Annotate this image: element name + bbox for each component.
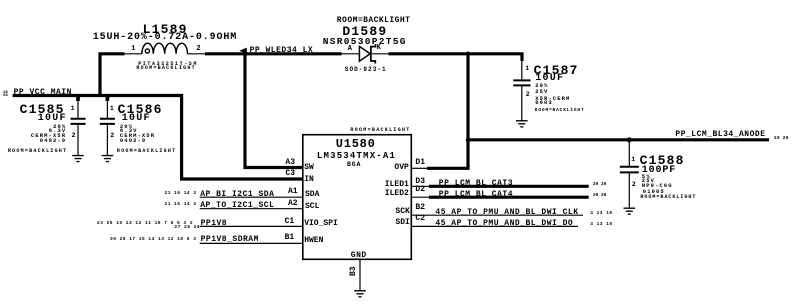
- C1587 room property: [535, 109, 585, 114]
- pin number C3: [285, 170, 295, 178]
- wire VIO_SPI pin C1: [200, 225, 303, 227]
- U1580 pin name IN: [304, 176, 314, 184]
- junction dot anode riser: [466, 138, 470, 142]
- junction square C1586 on bus: [106, 94, 110, 101]
- inductor L1589 value: [93, 33, 237, 43]
- pin number C1: [285, 218, 295, 226]
- off-page ref marks PP_VCC_MAIN: [3, 91, 8, 95]
- wire SCK B2: [411, 214, 583, 216]
- C1588 pin 2: [632, 182, 636, 189]
- wire SDI C2: [411, 225, 578, 227]
- U1580 part number: [317, 152, 396, 161]
- C1587 voltage: [535, 89, 548, 95]
- C1588 value 100PF: [642, 166, 676, 176]
- page refs PP1V8_SDRAM: [110, 238, 196, 243]
- C1585 dielectric: [31, 133, 66, 139]
- net 45_AP_TO_PMU_AND_BL_DWI_CLK: [435, 209, 578, 217]
- pin number B1: [285, 234, 295, 242]
- net arrow PP_WLED34_LX: [239, 48, 247, 54]
- C1585 value 10UF: [38, 114, 67, 124]
- wire SCL pin A2: [200, 208, 303, 210]
- capacitor C1585 plates: [71, 119, 86, 124]
- capacitor C1588 refdes: [640, 154, 685, 167]
- wire thin OVP pin stub D1: [411, 167, 427, 169]
- C1588 tolerance: [642, 174, 651, 180]
- C1585 tolerance: [53, 124, 66, 130]
- capacitor C1587 refdes: [534, 64, 579, 77]
- C1585 pin 1: [71, 106, 75, 113]
- wire GND pin B3: [359, 259, 361, 291]
- junction dot at OVP riser: [466, 52, 471, 57]
- inductor L1589 coil: [142, 43, 188, 54]
- pin number C2: [415, 215, 425, 223]
- C1587 pin 1: [525, 66, 529, 73]
- U1580 package BGA: [347, 162, 361, 169]
- C1586 pin 2: [110, 133, 114, 140]
- C1587 package: [535, 100, 553, 106]
- capacitor C1587 plates: [513, 80, 530, 85]
- L1589 pin 1: [131, 46, 135, 53]
- U1580 pin name OVP: [394, 164, 408, 172]
- wire thick PP_LCM_BL_CAT3: [429, 185, 589, 188]
- capacitor C1585 refdes: [20, 103, 65, 116]
- C1587 dielectric: [535, 96, 570, 102]
- L1589 part number: [138, 62, 198, 67]
- op-amp U1580 refdes: [336, 138, 376, 150]
- D1589 room property: [337, 17, 411, 25]
- pin number D1: [415, 159, 425, 167]
- capacitor C1586 plates: [100, 119, 115, 124]
- C1588 voltage: [642, 178, 655, 184]
- ground under C1585: [72, 156, 84, 162]
- C1587 value 10UF: [535, 74, 564, 84]
- diode D1589 part number: [323, 37, 407, 47]
- capacitor C1586 refdes: [118, 103, 163, 116]
- page refs ANODE: [774, 137, 789, 142]
- ground under U1580: [354, 291, 366, 297]
- net AP_BI_I2C1_SDA: [200, 191, 274, 199]
- U1580 pin name SCL: [305, 203, 319, 211]
- net AP_TO_I2C1_SCL: [200, 202, 274, 210]
- U1580 pin name SW: [304, 164, 314, 172]
- junction square C1585 on bus: [76, 94, 80, 101]
- wire thin L1589 pin 1: [125, 53, 142, 55]
- L1589 room property: [136, 66, 196, 71]
- wire SW from LX tap down to U1580 pin A3: [245, 54, 303, 168]
- page refs CAT4: [593, 194, 607, 199]
- C1586 dielectric: [120, 133, 155, 139]
- capacitor C1586 leads: [106, 97, 108, 155]
- pin number D2: [415, 186, 425, 194]
- inductor L1589 polarity dot: [145, 49, 149, 53]
- wire thin diode anode: [342, 53, 359, 55]
- pin number B2: [415, 204, 425, 212]
- D1589 package: [345, 67, 387, 73]
- C1588 package: [643, 189, 665, 195]
- C1586 package: [120, 138, 146, 144]
- wire vertical OVP riser: [466, 52, 469, 168]
- C1587 pin 2: [526, 92, 530, 99]
- net PP_WLED34_LX: [250, 47, 314, 55]
- U1580 pin name GND: [351, 252, 367, 260]
- pin number D3: [415, 178, 425, 186]
- capacitor C1585 leads: [77, 97, 79, 155]
- junction dot C1588 tap: [627, 137, 632, 142]
- wire thin diode cathode: [372, 53, 389, 55]
- wire SDA pin A1: [200, 196, 303, 198]
- net 45_AP_TO_PMU_AND_BL_DWI_DO: [435, 220, 573, 228]
- wire thick PP_LCM_BL_CAT4: [429, 196, 589, 199]
- C1588 room property: [640, 195, 696, 200]
- C1586 tolerance: [120, 124, 133, 130]
- net PP_LCM_BL_CAT4: [439, 191, 513, 199]
- wire thick OVP horizontal: [427, 167, 470, 170]
- ground under C1586: [102, 156, 114, 162]
- page refs CAT3: [593, 183, 607, 188]
- C1586 room property: [117, 149, 177, 154]
- capacitor C1588 plates: [620, 167, 639, 173]
- net PP_VCC_MAIN: [14, 89, 72, 97]
- U1580 pin name SCK: [395, 208, 409, 216]
- inductor L1589 refdes: [143, 23, 188, 36]
- wire thick PP_WLED34_LX: [205, 52, 342, 55]
- C1585 pin 2: [72, 133, 76, 140]
- C1586 voltage: [120, 128, 138, 134]
- junction dot at SW tap: [243, 52, 248, 57]
- wire thick from diode K to C1587 corner: [389, 54, 523, 61]
- IC U1580 body: [303, 135, 412, 260]
- C1587 tolerance: [535, 83, 548, 89]
- C1588 dielectric: [642, 183, 673, 189]
- pin number A2: [288, 200, 298, 208]
- U1580 pin name SDI: [395, 219, 409, 227]
- wire bus corner to U1580 IN pin C3: [180, 94, 303, 179]
- U1580 room property: [350, 128, 410, 133]
- wire thin ILED2 stub D2: [411, 196, 429, 198]
- capacitor C1588 leads: [628, 140, 630, 208]
- net PP_LCM_BL_CAT3: [439, 180, 513, 188]
- wire HWEN pin B1: [200, 242, 303, 244]
- wire thin ILED1 stub D3: [411, 185, 429, 187]
- page refs PP1V8 row1: [97, 222, 193, 227]
- page refs PP1V8 row2: [174, 226, 200, 231]
- C1586 value 10UF: [122, 114, 151, 124]
- diode D1589 triangle: [359, 46, 370, 61]
- diode D1589 refdes: [342, 25, 387, 38]
- C1585 room property: [8, 149, 68, 154]
- wire thin L1589 pin 2: [187, 53, 205, 55]
- C1585 package: [40, 138, 66, 144]
- U1580 pin name HWEN: [304, 237, 323, 245]
- net PP1V8: [201, 220, 228, 228]
- pin number B3: [350, 266, 358, 276]
- U1580 pin name ILED2: [385, 190, 409, 198]
- ground under C1587: [516, 121, 528, 127]
- wire PP_VCC_MAIN bus: [13, 94, 183, 97]
- U1580 pin name ILED1: [385, 181, 409, 189]
- D1589 cathode label K: [377, 45, 381, 52]
- net PP1V8_SDRAM: [201, 236, 259, 244]
- page refs SCL: [165, 203, 197, 208]
- D1589 anode label A: [348, 46, 352, 53]
- U1580 pin name SDA: [305, 191, 319, 199]
- page refs SDA: [165, 192, 197, 197]
- net PP_LCM_BL34_ANODE: [675, 131, 765, 139]
- wire PP_LCM_BL34_ANODE: [466, 138, 769, 141]
- page refs DWI_DO: [590, 223, 612, 228]
- pin number A3: [285, 159, 295, 167]
- ground under C1588: [624, 208, 636, 214]
- C1585 voltage: [49, 128, 67, 134]
- C1588 pin 1: [631, 157, 635, 164]
- page refs DWI_CLK: [590, 212, 612, 217]
- wire riser from bus up to L1589 pin 1: [100, 54, 125, 97]
- C1586 pin 1: [110, 106, 114, 113]
- pin number A1: [288, 188, 298, 196]
- U1580 pin name VIO_SPI: [304, 220, 338, 228]
- L1589 pin 2: [196, 46, 200, 53]
- capacitor C1587 leads: [521, 60, 523, 121]
- diode D1589 schottky cathode bar: [371, 44, 376, 63]
